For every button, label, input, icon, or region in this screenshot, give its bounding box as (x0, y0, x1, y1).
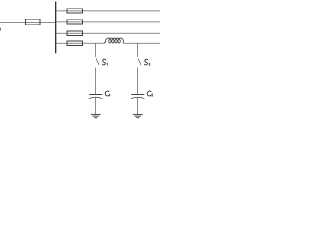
breaker row 2 (67, 20, 82, 24)
wire row 1 (56, 10, 160, 12)
ground G2 (133, 114, 143, 117)
label S1 (102, 59, 107, 65)
label C2 (147, 91, 153, 96)
wire row 3 (56, 32, 160, 34)
wire S2 to C2 (137, 68, 139, 95)
wire row 2 (56, 21, 160, 23)
wire row 4 right segment (123, 42, 160, 44)
capacitor C2 top plate (131, 94, 144, 96)
capacitor C2 curved plate (131, 97, 145, 98)
wire C2 to ground (137, 98, 139, 114)
node T2: drop to S2 (137, 43, 139, 57)
capacitor C1 top plate (89, 94, 102, 96)
bus bar (55, 2, 56, 54)
breaker row 1 (67, 9, 82, 13)
breaker B0 on feed wire (26, 19, 40, 25)
capacitor C1 curved plate (89, 97, 103, 98)
breaker row 4 (67, 41, 82, 45)
label S2 (144, 59, 150, 65)
ground G1 (91, 114, 101, 117)
switch S1 blade (96, 59, 99, 65)
switch S2 blade (138, 59, 141, 65)
label C1 (105, 91, 110, 96)
wire feed from left to bus (0, 22, 55, 24)
breaker row 3 (67, 31, 82, 35)
inductor L (coil) (104, 38, 123, 43)
wire S1 to C1 (95, 68, 97, 95)
wire C1 to ground (95, 98, 97, 114)
node T1: drop to S1 (95, 43, 97, 57)
wire row 4 left segment (56, 42, 104, 44)
clipped label at left edge (0, 28, 2, 31)
